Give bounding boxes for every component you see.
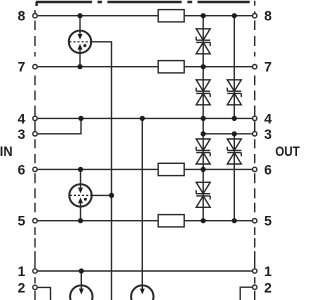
wire line 3 right [203,133,255,135]
pin label 2 left [18,280,26,295]
junction line5/G2 [78,218,83,223]
wire line 3 left hook to line 4 [35,118,81,133]
suppressor diode D6 (rail A, lines 6-5) [196,182,210,207]
suppressor diode D5 (rail B, lines 3-5) [227,139,241,164]
wire line 4 [35,117,255,119]
node label IN [0,143,13,158]
svg-text:5: 5 [264,214,272,229]
svg-text:2: 2 [264,280,272,295]
junction line6/G2 [78,167,83,172]
svg-text:7: 7 [264,60,272,75]
junction line3/railA [201,131,206,136]
terminal 8 left [33,14,37,18]
terminal 2 right [253,285,257,289]
terminal 8 right [253,14,257,18]
enclosure left border (dash-dot) [34,10,36,300]
junction line8/G1 [77,13,82,18]
pin label 5 left [18,214,26,229]
terminal 6 left [33,167,37,171]
junction line8/railB [232,13,237,18]
svg-text:4: 4 [18,111,26,126]
pin label 3 right [264,127,272,142]
junction line4/railA [201,116,206,121]
terminal 3 left [33,132,37,136]
gas discharge tube G1 (3-electrode, lines 8-7) [69,16,91,67]
svg-text:4: 4 [264,111,272,126]
pin label 2 right [264,280,272,295]
enclosure top border (dash-dot, cropped) [36,2,250,6]
pin label 8 right [264,9,272,24]
resistor R2 (line 7) [158,61,184,73]
terminal 4 right [253,116,257,120]
wire rail B x=234.3 (line 3 to line 5) [233,134,235,221]
svg-text:1: 1 [264,264,272,279]
wire rail C x=111.5 (GDT1 centre electrode down to bottom) [91,42,112,300]
pin label 5 right [264,214,272,229]
wire line 6 [35,168,255,170]
svg-text:7: 7 [18,60,26,75]
terminal 7 right [253,65,257,69]
pin label 6 right [264,162,272,177]
junction line1/G3 [79,268,84,273]
wire line 8 [35,15,255,17]
terminal 6 right [253,167,257,171]
junction line7/railA [201,64,206,69]
wire rail D x=142.3 (line 4 down to GDT G4) [141,118,143,289]
junction line5/railB [232,218,237,223]
terminal 7 left [33,65,37,69]
pin label 8 left [18,9,26,24]
resistor R3 (line 6) [158,163,184,175]
terminal 3 right [253,132,257,136]
junction line4/railB [232,116,237,121]
svg-text:6: 6 [18,162,26,177]
pin label 4 left [18,111,26,126]
pin label 6 left [18,162,26,177]
node label OUT [275,144,300,159]
pin label 7 left [18,60,26,75]
wire line 2 right hook [240,287,255,300]
svg-text:3: 3 [18,127,26,142]
resistor R4 (line 5) [158,215,184,227]
wire line 2 left hook [35,287,51,300]
junction railC/G2 electrode [109,193,114,198]
terminal 5 right [253,219,257,223]
junction line7/G1 [77,64,82,69]
junction line4/railD [140,116,145,121]
terminal 2 left [33,285,37,289]
gas discharge tube G3 (bottom, cropped) [70,271,92,300]
wire line 1 [35,270,255,272]
svg-text:2: 2 [18,280,26,295]
suppressor diode D1 (rail A, lines 8-7) [196,29,210,54]
wire rail B x=234.3 (line 8 to line 4) [233,16,235,119]
pin label 1 right [264,264,272,279]
svg-text:8: 8 [18,9,26,24]
gas discharge tube G4 (bottom, cropped) [131,285,153,300]
terminal 1 right [253,269,257,273]
wire line 7 [35,66,255,68]
junction line4/hook3 [78,116,83,121]
svg-text:OUT: OUT [275,144,300,159]
pin label 4 right [264,111,272,126]
terminal 4 left [33,116,37,120]
junction line6/railA [201,167,206,172]
pin label 7 right [264,60,272,75]
wire line 5 [35,220,255,222]
wire rail A x=203.2 (line 8 to line 5) [202,16,204,221]
suppressor diode D4 (rail A, lines 3-6) [196,139,210,164]
gas discharge tube G2 (3-electrode, lines 6-5) [69,169,111,220]
suppressor diode D2 (rail A, lines 7-4) [196,80,210,105]
junction line8/railA [201,13,206,18]
svg-text:IN: IN [0,143,13,158]
terminal 5 left [33,219,37,223]
svg-text:6: 6 [264,162,272,177]
svg-text:1: 1 [18,264,26,279]
resistor R1 (line 8) [158,10,184,22]
junction line5/railA [201,218,206,223]
svg-text:8: 8 [264,9,272,24]
enclosure right border (dash-dot) [254,1,256,300]
pin label 3 left [18,127,26,142]
svg-text:5: 5 [18,214,26,229]
pin label 1 left [18,264,26,279]
junction line3/railB [232,131,237,136]
suppressor diode D3 (rail B, lines 8-4) [227,80,241,105]
svg-text:3: 3 [264,127,272,142]
terminal 1 left [33,269,37,273]
